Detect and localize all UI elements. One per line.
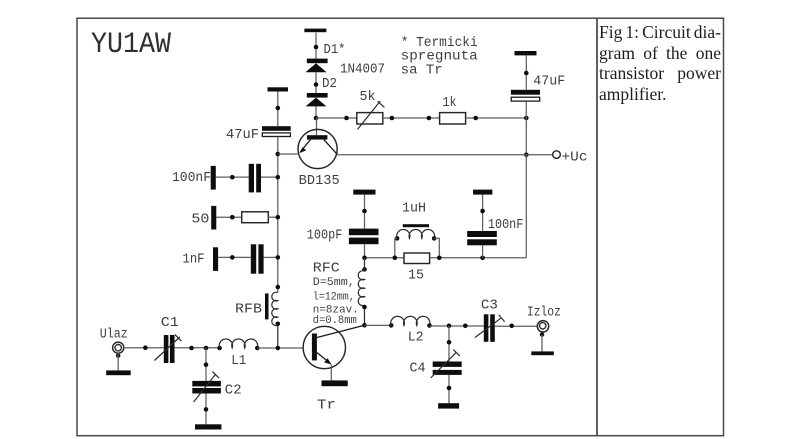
node dot on right 47uF stub: [524, 71, 529, 76]
wire +Uc collector line: [337, 154, 553, 156]
ground bar below C4: [438, 403, 459, 408]
capacitor 47uF right (polarized): [511, 90, 540, 101]
svg-text:1N4007: 1N4007: [340, 63, 385, 78]
wire 100nF row left: [216, 176, 249, 178]
node dot right of C1: [189, 346, 194, 351]
terminal Ulaz: [113, 342, 124, 358]
wire C1 to L1: [175, 347, 220, 349]
svg-text:L2: L2: [408, 330, 424, 345]
node dot RFB top: [276, 285, 281, 290]
node dot 1uH left end: [395, 236, 400, 241]
wire L1 to Tr base: [257, 347, 303, 349]
wire +Uc feed down right side: [525, 155, 527, 258]
svg-text:C4: C4: [410, 362, 426, 377]
node dot collector node: [362, 323, 367, 328]
wire D1 top stub: [315, 33, 317, 59]
svg-text:47uF: 47uF: [533, 75, 565, 90]
node dot bias node at D2 bottom: [314, 116, 319, 121]
node dot C2 junction: [204, 346, 209, 351]
wire filter line right of 15: [430, 257, 527, 259]
svg-text:50: 50: [191, 212, 209, 227]
node dot 1nF row at bus: [276, 255, 281, 260]
capacitor 1nF: [251, 244, 264, 273]
node dot right of 5k: [390, 116, 395, 121]
terminal Izloz: [537, 321, 548, 337]
svg-text:d=0.8mm: d=0.8mm: [313, 315, 357, 327]
transistor BD135: [298, 129, 337, 168]
node dot L1 left: [217, 346, 222, 351]
svg-text:L1: L1: [231, 354, 246, 369]
svg-text:Ulaz: Ulaz: [100, 328, 128, 343]
node dot filter line at 100nF: [480, 255, 485, 260]
svg-text:1k: 1k: [443, 96, 457, 111]
wire 100nF row right: [261, 176, 278, 178]
resistor 1k: [440, 113, 466, 124]
wire Izloz ground stub: [541, 335, 543, 352]
ground bar below Tr: [322, 380, 348, 386]
capacitor C4 (trimmer): [431, 350, 462, 378]
wire 1nF row right: [264, 256, 278, 258]
svg-text:YU1AW: YU1AW: [91, 28, 171, 62]
ground rail bar above 100pF: [353, 190, 375, 195]
svg-text:5k: 5k: [360, 90, 376, 105]
wire bias line between 5k and 1k: [383, 117, 440, 119]
node dot left of 5k: [344, 116, 349, 121]
svg-text:Izloz: Izloz: [527, 306, 561, 321]
svg-text:spregnuta: spregnuta: [401, 50, 478, 65]
svg-text:D2: D2: [322, 77, 337, 92]
svg-text:Tr: Tr: [317, 398, 336, 413]
wire left 47uF top stub: [277, 92, 279, 127]
inductor RFC coil: [358, 258, 364, 325]
ground rail bar above right 100nF: [473, 190, 492, 195]
wire C3 to Izloz: [495, 325, 538, 327]
resistor 5k (variable): [357, 101, 385, 129]
node dot below C2: [204, 407, 209, 412]
inductor 1uH coil: [397, 229, 435, 238]
wire bias line right segment: [466, 117, 527, 119]
ground rail bar above D1: [304, 29, 326, 33]
wire L2 to C3: [430, 325, 484, 327]
node dot L2 left: [389, 323, 394, 328]
wire Ulaz to C1: [124, 347, 164, 349]
wire 1uH left stub: [395, 238, 397, 257]
wire Ulaz ground stub: [117, 353, 119, 370]
caption: Fig 1 text: [599, 22, 721, 104]
svg-text:47uF: 47uF: [226, 128, 259, 143]
node dot right of C3: [509, 324, 514, 329]
ground rail bar above right 47uF: [515, 51, 537, 55]
inductor L2: [391, 316, 430, 325]
node dot 50 row left: [230, 215, 235, 220]
svg-text:RFB: RFB: [235, 302, 262, 317]
node dot RFB bottom: [276, 322, 281, 327]
capacitor C1 (trimmer): [154, 335, 181, 363]
svg-text:1nF: 1nF: [183, 252, 205, 267]
node dot on 100pF stub: [362, 209, 367, 214]
svg-text:100nF: 100nF: [488, 218, 524, 233]
wire bias line left segment: [316, 117, 357, 119]
transistor Tr: [303, 325, 364, 368]
svg-text:C3: C3: [481, 299, 498, 314]
resistor 15: [404, 253, 430, 264]
svg-text:sa Tr: sa Tr: [401, 64, 443, 79]
node dot filter line left of 15: [393, 255, 398, 260]
capacitor 100nF left: [249, 164, 261, 193]
wire 1nF row left: [218, 256, 251, 258]
node dot on left 47uF stub: [276, 106, 281, 111]
wire Tr emitter ground stub: [330, 365, 332, 381]
svg-text:1uH: 1uH: [402, 202, 426, 217]
node dot between D1 and D2: [314, 82, 319, 87]
inductor L1: [219, 339, 258, 348]
ground bar below C2: [195, 424, 221, 429]
wire right 100nF top stub: [482, 195, 484, 231]
svg-text:RFC: RFC: [313, 262, 340, 277]
node dot C4 top: [447, 340, 452, 345]
wire between D1 and D2: [315, 72, 317, 93]
svg-text:D=5mm,: D=5mm,: [313, 277, 355, 289]
node dot Ulaz wire: [143, 345, 148, 350]
wire C2 ground stub: [205, 394, 207, 425]
node dot filter line at 100pF: [362, 255, 367, 260]
wire collector node to L2: [365, 324, 392, 326]
node dot on D1 stub: [314, 45, 319, 50]
wire left bus 47uF down to RFB: [277, 137, 279, 293]
frame: schematic border box: [77, 18, 597, 436]
wire D2 to bias node: [315, 106, 317, 118]
node dot L2 right: [427, 323, 432, 328]
wire C2 branch stub: [205, 348, 207, 381]
svg-text:100nF: 100nF: [172, 171, 211, 186]
node dot 100nF row at bus: [276, 175, 281, 180]
capacitor C2 (trimmer): [192, 372, 221, 402]
inductor 1uH core bar: [403, 224, 429, 227]
node dot L1 right: [255, 346, 260, 351]
diode D2: [306, 93, 328, 106]
ground bar below Izloz: [531, 351, 554, 355]
node dot 1uH right end: [432, 236, 437, 241]
svg-text:100pF: 100pF: [307, 229, 343, 244]
capacitor 100pF: [349, 229, 379, 245]
wire 100pF top stub: [364, 195, 366, 229]
node dot left of 1k: [427, 116, 432, 121]
wire C4 branch stub: [448, 326, 450, 362]
node dot emitter junction: [276, 152, 281, 157]
wire C4 ground stub: [448, 375, 450, 403]
wire 1uH right stub: [434, 238, 439, 257]
wire 50 row left: [216, 216, 241, 218]
node dot filter line right of 15: [437, 255, 442, 260]
inductor RFB coil: [272, 292, 278, 348]
wire right 47uF top stub: [525, 55, 527, 89]
node dot 100nF row left: [230, 175, 235, 180]
node dot bias line at 47uF column: [524, 116, 529, 121]
svg-text:+Uc: +Uc: [562, 151, 588, 166]
wire 100pF bottom stub: [364, 244, 366, 258]
node dot 1nF row left: [230, 255, 235, 260]
svg-text:C2: C2: [225, 384, 242, 399]
node dot C4 junction: [447, 324, 452, 329]
terminal bar 1nF row: [213, 247, 218, 271]
ground rail bar above left 47uF: [268, 87, 289, 91]
node dot RFB at base wire: [276, 346, 281, 351]
wire right 47uF bottom to bias line to +Uc line: [525, 101, 527, 154]
node dot on right 100nF stub: [480, 209, 485, 214]
frame: caption border box: [597, 18, 724, 436]
wire right 100nF bottom stub: [482, 245, 484, 257]
node dot below C4: [447, 386, 452, 391]
wire BD135 base stub: [316, 118, 318, 135]
inductor RFB core bar: [265, 293, 269, 319]
ground bar below Ulaz: [106, 370, 131, 375]
svg-text:D1*: D1*: [324, 43, 346, 58]
node dot C2 top: [204, 362, 209, 367]
node dot +Uc line at 47uF column: [524, 153, 529, 158]
capacitor 47uF left (polarized): [262, 126, 291, 136]
svg-text:C1: C1: [161, 316, 179, 331]
terminal +Uc: [553, 151, 561, 159]
resistor 50: [242, 212, 269, 223]
diode D1: [306, 59, 328, 73]
terminal bar 100nF row: [211, 166, 216, 190]
node dot RFC top: [362, 267, 367, 272]
node dot right of 1k: [473, 116, 478, 121]
node dot 50 row at bus: [276, 215, 281, 220]
wire filter line left of 15: [365, 257, 405, 259]
wire BD135 emitter to bus: [278, 153, 299, 155]
svg-text:l=12mm,: l=12mm,: [313, 292, 355, 304]
svg-text:BD135: BD135: [299, 174, 340, 189]
capacitor 100nF right: [467, 231, 497, 245]
node dot right of C4 junction: [463, 324, 468, 329]
svg-text:15: 15: [408, 269, 424, 284]
terminal bar 50 row: [211, 206, 216, 230]
capacitor C3 (trimmer): [475, 314, 505, 342]
wire 50 row right: [268, 216, 278, 218]
note text: * Termicki spregnuta sa Tr: [401, 36, 478, 79]
node dot RFC bottom: [362, 305, 367, 310]
